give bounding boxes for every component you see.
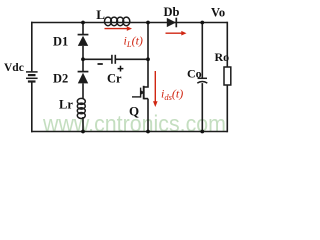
svg-text:D2: D2 [53, 72, 68, 86]
diode Db [167, 18, 177, 28]
label Co [187, 67, 202, 81]
svg-text:Vo: Vo [211, 6, 225, 20]
watermark www.cntronics.com [42, 111, 226, 137]
wire between D1 and D2 [82, 46, 84, 72]
svg-text:Lr: Lr [59, 98, 73, 112]
node bottom Co [200, 130, 204, 134]
inductor L [105, 17, 130, 26]
node bottom Q [146, 130, 150, 134]
wire MOSFET source to bottom [147, 99, 149, 132]
wire left (Vdc branch lower) [31, 83, 33, 133]
node Cr right [146, 57, 150, 61]
wire right lower (Ro to bottom) [226, 85, 228, 132]
label Vo [211, 6, 225, 20]
wire bottom [31, 131, 227, 133]
capacitor Cr [112, 55, 115, 64]
current arrow ids [153, 71, 158, 107]
wire mid vertical (top to MOSFET drain) [144, 23, 148, 88]
label ids(t) [161, 87, 183, 103]
wire right upper (to Ro) [226, 22, 228, 67]
node Cr left [81, 57, 85, 61]
capacitor Co [197, 78, 207, 83]
wire Co branch lower [201, 83, 203, 131]
wire Cr right segment [116, 58, 149, 60]
wire Lr to bottom [82, 117, 84, 132]
node top mid branch [146, 21, 150, 25]
svg-text:Q: Q [129, 103, 139, 118]
current arrow iL [105, 26, 133, 31]
label D2 [53, 72, 68, 86]
label Ro [215, 50, 230, 64]
label minus (Cr) [98, 63, 103, 65]
resistor Ro [224, 67, 231, 85]
diode D1 [78, 35, 89, 46]
svg-text:L: L [96, 7, 105, 22]
transistor Q (MOSFET) [132, 86, 148, 100]
battery Vdc [26, 72, 38, 82]
node bottom Lr [81, 130, 85, 134]
svg-text:Ro: Ro [215, 50, 230, 64]
diode D2 [78, 72, 89, 84]
label Db [164, 5, 180, 19]
label D1 [53, 35, 68, 49]
current arrow Db output [166, 31, 187, 36]
node top D1 branch [81, 21, 85, 25]
svg-text:Db: Db [164, 5, 180, 19]
svg-text:Vdc: Vdc [4, 62, 24, 74]
svg-text:Cr: Cr [107, 72, 122, 86]
label iL(t) [124, 34, 143, 50]
inductor Lr [77, 98, 85, 118]
node top Co branch [200, 21, 204, 25]
svg-text:iL(t): iL(t) [124, 34, 143, 50]
svg-text:ids(t): ids(t) [161, 87, 183, 103]
label L [96, 7, 105, 22]
wire left (Vdc branch upper) [31, 22, 33, 72]
wire Co branch upper [201, 23, 203, 79]
label Q [129, 103, 139, 118]
label Cr [107, 72, 122, 86]
svg-text:Co: Co [187, 67, 202, 81]
wire Cr left segment [83, 58, 112, 60]
wire branch D1-D2-Lr upper [82, 23, 84, 35]
wire top [31, 22, 227, 24]
svg-text:D1: D1 [53, 35, 68, 49]
label Lr [59, 98, 73, 112]
label Vdc [4, 62, 24, 74]
wire between D2 and Lr [82, 83, 84, 99]
label plus (Cr) [118, 66, 124, 72]
